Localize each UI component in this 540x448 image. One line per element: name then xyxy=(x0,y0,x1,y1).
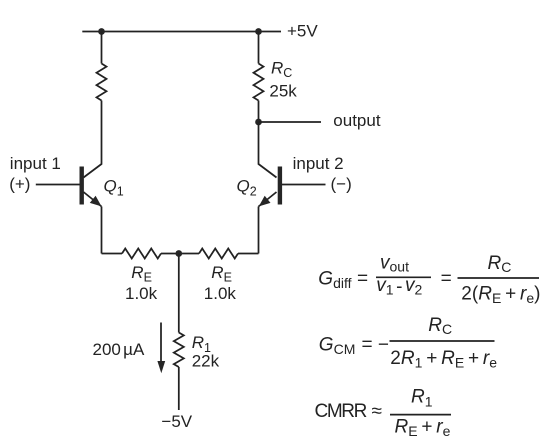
wire: Q2 base lead xyxy=(282,184,326,186)
wire: RE right to Q2 emitter xyxy=(238,253,259,255)
wire: tail node down to R1 xyxy=(178,254,180,333)
wire: output lead xyxy=(259,121,322,123)
wire: R1 to -5V xyxy=(178,367,180,410)
fraction bar xyxy=(390,414,451,416)
equation: Gdiff = vout/(v1-v2) = RC/(2(RE+re)) xyxy=(318,253,540,307)
svg-text:CMRR: CMRR xyxy=(315,401,367,422)
svg-text:(+): (+) xyxy=(9,175,30,194)
wire: right branch from rail to RC xyxy=(258,32,260,64)
current arrow: 200uA direction xyxy=(157,323,165,374)
resistor RC xyxy=(254,64,264,101)
wire: output node to Q2 collector xyxy=(259,122,277,178)
svg-text:=: = xyxy=(357,268,368,289)
wire: Q1 emitter to RE left xyxy=(102,253,123,255)
node: output junction xyxy=(255,119,262,126)
wire: +5V top supply rail xyxy=(82,31,281,33)
resistor R1 xyxy=(174,333,184,368)
fraction bar xyxy=(390,340,495,342)
svg-text:−5V: −5V xyxy=(161,412,192,431)
svg-text:1.0k: 1.0k xyxy=(204,284,237,303)
node: emitter tail junction xyxy=(175,250,182,257)
svg-text:= −: = − xyxy=(362,335,389,356)
svg-text:input 2: input 2 xyxy=(293,154,344,173)
transistor Q2 xyxy=(259,167,280,207)
svg-text:≈: ≈ xyxy=(372,401,382,422)
wire: left resistor to Q1 collector xyxy=(84,101,102,178)
svg-text:(−): (−) xyxy=(331,175,352,194)
svg-text:input 1: input 1 xyxy=(10,154,61,173)
node: left supply junction xyxy=(98,28,105,35)
resistor RE right xyxy=(199,249,238,259)
svg-text:=: = xyxy=(441,268,452,289)
node: right supply junction xyxy=(255,28,262,35)
equation: GCM = -RC/(2R1+RE+re) xyxy=(319,315,497,371)
svg-text:22k: 22k xyxy=(192,352,220,371)
wire: Q2 emitter vertical xyxy=(258,207,260,254)
svg-text:RE + re: RE + re xyxy=(395,417,451,440)
wire: Q1 emitter vertical xyxy=(101,207,103,254)
equation: CMRR = R1/(RE+re) xyxy=(315,387,452,440)
svg-text:2R1 + RE + re: 2R1 + RE + re xyxy=(390,348,497,371)
wire: left branch from rail to resistor xyxy=(101,32,103,64)
transistor Q1 xyxy=(82,167,102,207)
fraction bar 1 xyxy=(376,276,431,278)
svg-text:25k: 25k xyxy=(269,81,297,100)
svg-text:output: output xyxy=(333,111,381,130)
svg-text:200µA: 200µA xyxy=(93,340,145,359)
svg-text:+5V: +5V xyxy=(287,22,318,41)
svg-text:1.0k: 1.0k xyxy=(125,284,158,303)
wire: RC to output node xyxy=(258,101,260,123)
wire: RE left to tail node xyxy=(161,253,199,255)
resistor: unlabeled left collector resistor xyxy=(97,64,107,101)
wire: Q1 base lead xyxy=(36,184,80,186)
resistor RE left xyxy=(122,249,161,259)
fraction bar 2 xyxy=(458,277,540,279)
